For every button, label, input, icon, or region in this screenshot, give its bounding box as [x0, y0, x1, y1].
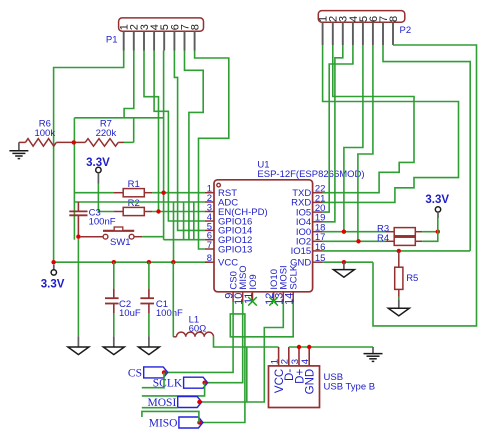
junction IO0 dot — [342, 230, 346, 234]
wire MOSI pin13 path — [199, 302, 283, 402]
ground G3 — [148, 336, 150, 347]
U1 right pin leads — [313, 193, 323, 263]
svg-text:SW1: SW1 — [110, 237, 131, 248]
wire P2 pin5 to IO0 row — [344, 45, 363, 232]
wire P2 pin2 staircase to TXD — [323, 45, 414, 193]
svg-text:GPIO13: GPIO13 — [218, 244, 252, 255]
switch SW1 — [81, 227, 143, 239]
ground R5 — [398, 300, 400, 308]
connector P2 8-pin header — [318, 11, 405, 23]
svg-text:R1: R1 — [128, 179, 140, 190]
wire R4 to 3.3V column — [422, 232, 438, 242]
resistor R1 — [114, 189, 152, 197]
wire P2 pin8 to GND loop — [373, 45, 477, 326]
resistor R6 100k — [19, 139, 74, 147]
wire MISO pin to SCLK flag — [205, 302, 243, 383]
USB pin names — [274, 369, 317, 395]
svg-text:GND: GND — [305, 369, 317, 395]
wire RST left column to SW1 row — [73, 118, 75, 240]
power terminal 3.3V top — [96, 167, 101, 172]
junction USB pin3 dot — [297, 345, 301, 349]
wire riser ADC row to rail dot — [173, 202, 175, 262]
wire P1 pin4 jog to GPIO16 row — [154, 51, 205, 222]
wire riser ADC row to GPIO12 row — [183, 202, 185, 240]
svg-text:USB Type B: USB Type B — [324, 381, 376, 392]
resistor R5 vertical — [395, 251, 403, 297]
wire IO15 row — [323, 250, 471, 252]
inductor L1 60ohm — [173, 332, 213, 337]
U1 left pin names — [218, 188, 268, 269]
resistor R3 — [385, 228, 422, 236]
svg-text:100nF: 100nF — [89, 217, 116, 228]
P1 pin stubs — [124, 31, 195, 50]
junction rail C1 — [147, 260, 151, 264]
svg-text:60Ω: 60Ω — [189, 323, 207, 334]
svg-text:100k: 100k — [34, 128, 55, 139]
svg-text:IO15: IO15 — [291, 246, 312, 257]
op-amp U1 ESP-12F body — [214, 180, 313, 292]
svg-text:MISO: MISO — [149, 418, 178, 430]
svg-text:3.3V: 3.3V — [425, 194, 449, 206]
junction GND row dot — [342, 260, 346, 264]
junction rail L1 — [171, 260, 175, 264]
wire P2 pin1 staircase to RXD — [323, 45, 459, 202]
wire RST bus horizontal — [74, 117, 163, 119]
wire IO2 row to R4 — [323, 240, 386, 242]
svg-text:100nF: 100nF — [156, 308, 183, 319]
USB pin numbers — [269, 359, 311, 364]
U1 left pin leads — [205, 193, 214, 263]
wire ADC row — [74, 201, 205, 203]
U1 right pin numbers — [315, 184, 326, 265]
junction MOSI dot — [197, 400, 201, 404]
wire P2 pin7 to IO15 row — [383, 45, 470, 251]
USB pin leads — [279, 347, 310, 366]
svg-text:220k: 220k — [96, 128, 117, 139]
connector USB Type B body — [269, 366, 320, 408]
wire SCLK flag lower stub — [142, 383, 205, 396]
power terminal 3.3V left — [53, 265, 55, 270]
junction CS dot — [162, 370, 166, 374]
svg-text:3.3V: 3.3V — [86, 157, 110, 169]
svg-text:8: 8 — [388, 16, 400, 22]
junction SCLK dot — [202, 381, 206, 385]
U1 left pin numbers — [207, 184, 212, 265]
wire RST row left of R1 — [74, 192, 114, 194]
svg-text:VCC: VCC — [218, 258, 238, 269]
junction rail left — [51, 260, 55, 264]
wire 3.3V terminal to R2 row — [98, 184, 114, 212]
junction rail C2 — [112, 260, 116, 264]
ground G2 — [113, 336, 115, 347]
junction 3.3V R3 dot — [436, 230, 440, 234]
wire CS0 pin to CS flag — [164, 302, 233, 372]
svg-text:10uF: 10uF — [119, 308, 141, 319]
junction USB pin4 dot — [307, 345, 311, 349]
wire R2 to IC EN pin — [152, 211, 205, 213]
wire R1 to IC RST pin — [152, 192, 205, 194]
wire SCLK pin14 path — [199, 302, 293, 423]
svg-text:IO9: IO9 — [248, 274, 259, 289]
resistor R7 220k — [74, 139, 134, 147]
svg-text:SCLK: SCLK — [153, 378, 183, 390]
wire CS flag lower stub — [142, 372, 164, 387]
ground G1 — [77, 336, 79, 347]
ground GND pin15 — [343, 262, 345, 269]
junction EN dot — [156, 209, 160, 213]
U1 bottom pin leads — [233, 292, 293, 302]
wire P1 pin3 jog to EN dot — [144, 51, 159, 212]
svg-text:P1: P1 — [106, 35, 118, 46]
wire IO0 row to R3 — [323, 231, 386, 233]
capacitor C1 100nF — [140, 262, 154, 336]
svg-text:SCLK: SCLK — [289, 264, 300, 289]
junction C3 SW1 node — [76, 235, 80, 239]
wire P1 pin2 jog to RST bus — [124, 51, 134, 118]
wire riser ADC row to GPIO12 row second — [193, 202, 195, 240]
net flag CS — [144, 367, 168, 378]
wire 3.3V rail — [54, 261, 210, 263]
U1 bottom pin numbers — [224, 293, 296, 305]
ground USB — [372, 347, 374, 353]
U1 bottom pin names — [229, 264, 300, 289]
wire L1 to USB VCC — [214, 337, 279, 347]
P2 pin stubs — [323, 22, 393, 45]
junction R5 top dot — [397, 249, 401, 253]
svg-text:R5: R5 — [406, 273, 418, 284]
svg-text:8: 8 — [190, 24, 202, 30]
ground for R6 — [18, 142, 20, 150]
resistor R2 — [114, 207, 152, 215]
capacitor C3 100nF — [69, 202, 87, 237]
net flag MISO — [179, 417, 203, 428]
svg-text:P2: P2 — [400, 25, 412, 36]
junction RST dot — [161, 191, 165, 195]
wire SW1 jog to GPIO12 row — [142, 236, 163, 238]
wire R3 to 3.3V column — [422, 231, 438, 233]
junction MISO dot — [197, 420, 201, 424]
svg-text:R4: R4 — [377, 233, 389, 244]
svg-text:7: 7 — [207, 240, 212, 251]
wire rail to L1 — [172, 262, 174, 337]
svg-text:CS: CS — [128, 367, 142, 379]
wire P1 pin7 jog to GPIO12 row tap — [185, 51, 204, 240]
wire C3 node to ground G1 — [77, 239, 79, 336]
wire P1 pin6 jog to GPIO14 row — [174, 51, 205, 231]
junction IO2 dot — [356, 239, 360, 243]
wire GPIO12 row from column — [164, 239, 205, 241]
wire P1 pin8 jog to GPIO13 row — [195, 51, 229, 250]
wire P1 pin1 to 3.3V rail — [54, 51, 124, 263]
resistor R4 — [385, 237, 422, 245]
svg-text:R2: R2 — [128, 198, 140, 209]
U1 right pin names — [290, 188, 311, 269]
wire USB D- D+ GND to ground — [289, 346, 373, 348]
wire GND row 15 — [323, 261, 373, 263]
power terminal 3.3V right — [435, 207, 440, 212]
no-connect X on IO9 — [248, 297, 257, 306]
net flag MOSI — [178, 397, 202, 408]
junction R6 R7 node RST — [72, 140, 76, 144]
svg-text:8: 8 — [207, 253, 212, 264]
wire P2 pin4 to IO5 — [323, 45, 353, 212]
wire MOSI left stub — [142, 407, 178, 409]
net flag SCLK — [184, 377, 208, 388]
svg-text:ESP-12F(ESP8266MOD): ESP-12F(ESP8266MOD) — [257, 169, 364, 180]
capacitor C2 10uF — [105, 262, 119, 336]
wire R7 riser — [133, 118, 135, 143]
no-connect X on IO10 — [269, 297, 278, 306]
wire stub VCC to MOSI row — [246, 347, 248, 402]
wire P1 pin5 column through RST dot to GPIO12 row — [163, 51, 165, 240]
svg-text:4: 4 — [300, 359, 311, 364]
wire P2 pin3 to IO4 — [323, 45, 343, 222]
connector P1 8-pin header — [119, 18, 204, 31]
wire MISO upper stub — [142, 411, 199, 422]
svg-text:3.3V: 3.3V — [41, 279, 65, 291]
wire R5 to ground — [398, 297, 400, 300]
wire P2 pin6 to IO2 row — [358, 45, 373, 241]
